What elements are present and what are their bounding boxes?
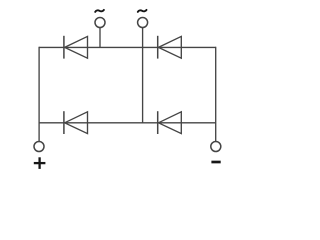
diode top-left (cathode to left rail) — [64, 36, 88, 59]
wire: left rail down to + terminal — [38, 47, 40, 147]
wire: right rail down to - terminal — [215, 47, 217, 147]
label - at negative terminal — [211, 161, 220, 164]
label + at positive terminal — [34, 157, 46, 169]
terminal - (circle) — [211, 142, 221, 152]
wire: bottom bus (left corner to right corner) — [39, 122, 216, 124]
label ~ at AC1 terminal — [95, 10, 104, 12]
terminal + (circle) — [34, 142, 44, 152]
diode top-right (cathode toward AC node) — [158, 36, 182, 59]
wire: AC2 stem from terminal crossing top bus to bottom bus junction — [142, 23, 144, 123]
label ~ at AC2 terminal — [138, 10, 147, 12]
diode bottom-left (cathode to left rail) — [64, 111, 88, 134]
terminal AC1 (circle) — [95, 18, 105, 28]
wire: AC1 stem from terminal to top bus — [99, 23, 101, 48]
wire: top bus (left corner to right corner) — [39, 46, 216, 48]
terminal AC2 (circle) — [138, 18, 148, 28]
diode bottom-right (cathode toward AC node) — [158, 111, 182, 134]
